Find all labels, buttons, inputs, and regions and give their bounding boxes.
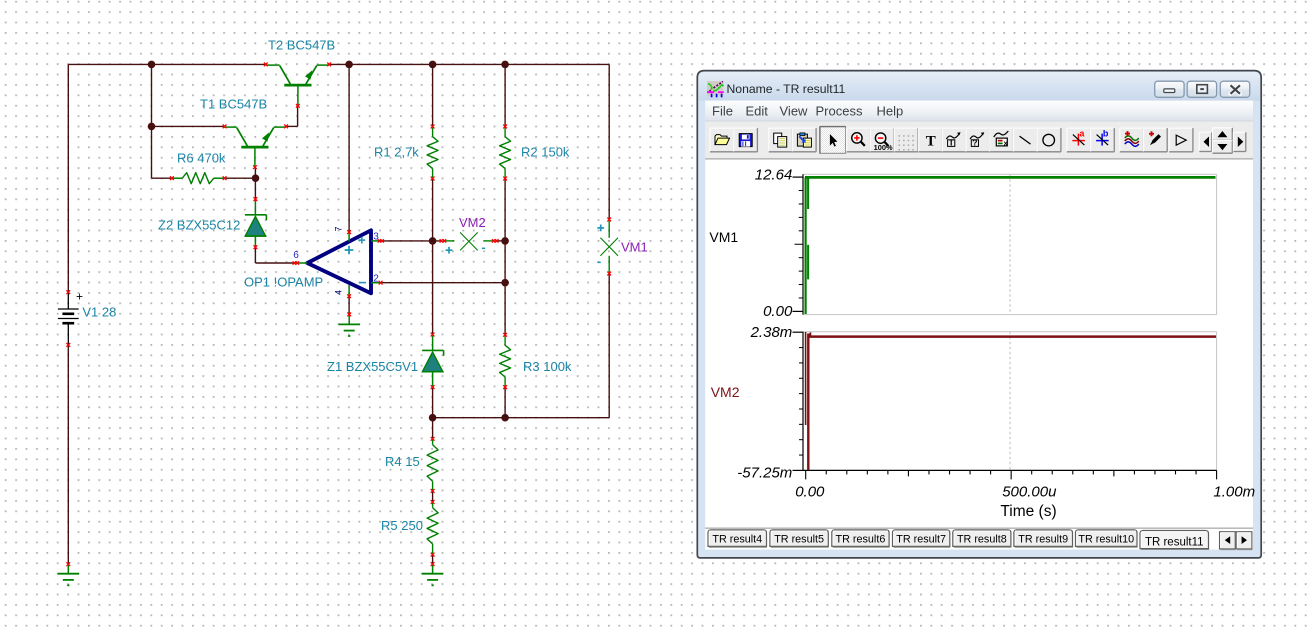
- svg-text:12.64: 12.64: [755, 166, 793, 183]
- svg-text:OP1 !OPAMP: OP1 !OPAMP: [244, 275, 323, 290]
- svg-text:R4 15: R4 15: [385, 454, 420, 469]
- svg-text:b: b: [1103, 129, 1109, 139]
- svg-text:6: 6: [293, 250, 299, 261]
- svg-text:TR result9: TR result9: [1018, 533, 1068, 545]
- svg-text:2: 2: [373, 273, 379, 284]
- svg-text:0.00: 0.00: [795, 483, 825, 500]
- svg-text:R5 250: R5 250: [381, 518, 423, 533]
- svg-text:TR result7: TR result7: [896, 533, 946, 545]
- svg-text:V1 28: V1 28: [82, 305, 116, 320]
- svg-text:R2 150k: R2 150k: [521, 145, 570, 160]
- svg-text:TR result8: TR result8: [957, 533, 1007, 545]
- svg-text:Process: Process: [816, 103, 863, 118]
- svg-text:Z2 BZX55C12: Z2 BZX55C12: [158, 218, 240, 233]
- svg-text:R1 2,7k: R1 2,7k: [374, 145, 419, 160]
- svg-text:100%: 100%: [874, 143, 893, 152]
- svg-text:TR result10: TR result10: [1078, 533, 1134, 545]
- svg-text:VM2: VM2: [459, 215, 486, 230]
- svg-text:+: +: [76, 290, 83, 304]
- svg-text:R3 100k: R3 100k: [523, 359, 572, 374]
- svg-text:0.00: 0.00: [763, 303, 793, 320]
- svg-text:View: View: [780, 103, 809, 118]
- svg-text:?: ?: [972, 138, 977, 148]
- svg-text:T: T: [949, 138, 955, 148]
- svg-text:T2 BC547B: T2 BC547B: [268, 38, 335, 53]
- svg-text:TR result11: TR result11: [1145, 536, 1204, 548]
- svg-text:Time (s): Time (s): [1000, 503, 1056, 520]
- svg-text:2.38m: 2.38m: [750, 324, 793, 341]
- svg-text:TR result4: TR result4: [712, 533, 762, 545]
- svg-text:File: File: [712, 103, 733, 118]
- svg-text:VM2: VM2: [711, 384, 740, 400]
- svg-text:T: T: [926, 134, 936, 150]
- svg-text:TR result6: TR result6: [836, 533, 886, 545]
- svg-text:VM1: VM1: [621, 240, 648, 255]
- svg-text:-57.25m: -57.25m: [737, 465, 792, 482]
- svg-text:Noname - TR result11: Noname - TR result11: [727, 82, 846, 96]
- svg-text:T1 BC547B: T1 BC547B: [200, 97, 267, 112]
- svg-text:Z1 BZX55C5V1: Z1 BZX55C5V1: [327, 359, 418, 374]
- svg-text:Edit: Edit: [746, 103, 769, 118]
- svg-text:7: 7: [334, 226, 344, 231]
- svg-text:R6 470k: R6 470k: [177, 151, 226, 166]
- svg-text:4: 4: [334, 290, 344, 295]
- svg-text:TR result5: TR result5: [774, 533, 824, 545]
- svg-text:1.00m: 1.00m: [1213, 483, 1255, 500]
- svg-text:VM1: VM1: [709, 229, 738, 245]
- svg-text:500.00u: 500.00u: [1002, 483, 1057, 500]
- svg-text:Help: Help: [877, 103, 904, 118]
- svg-text:3: 3: [373, 231, 379, 242]
